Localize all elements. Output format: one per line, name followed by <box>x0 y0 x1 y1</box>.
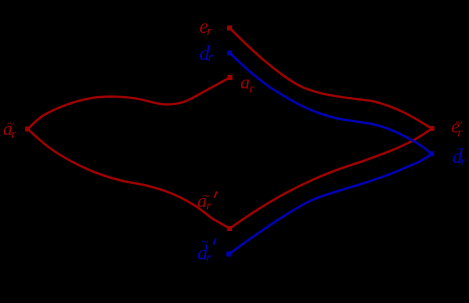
curve red ar-prime to er-tilde (lower right) <box>230 129 432 229</box>
marker ar-tilde <box>25 127 30 132</box>
marker dr-tilde <box>429 151 434 156</box>
curve blue dr-prime to dr-tilde (lower right) <box>229 154 431 254</box>
label dr-prime-tilde <box>197 233 216 264</box>
svg-text:r: r <box>206 197 212 212</box>
svg-text:r: r <box>249 81 255 96</box>
svg-text:r: r <box>206 250 212 265</box>
label ar-prime-tilde <box>197 188 216 212</box>
marker er <box>227 26 232 31</box>
svg-text:r: r <box>208 49 214 64</box>
curve red ar-tilde to ar-prime (lower left) <box>28 129 230 229</box>
label ar <box>240 73 255 96</box>
marker dr <box>227 51 232 56</box>
label er-tilde <box>451 114 463 139</box>
svg-text:r: r <box>457 124 463 139</box>
marker er-tilde <box>429 126 434 131</box>
label ar-tilde <box>3 115 17 141</box>
svg-text:r: r <box>11 126 17 141</box>
marker ar-prime <box>227 226 232 231</box>
marker ar <box>228 75 233 80</box>
marker dr-prime <box>226 252 231 257</box>
label er <box>199 16 212 38</box>
curve blue dr to dr-tilde (upper right) <box>230 53 432 154</box>
label dr <box>199 41 214 65</box>
label dr-tilde <box>453 141 467 169</box>
svg-text:r: r <box>207 23 213 38</box>
curve red ar-tilde to ar (upper left wave) <box>28 78 230 130</box>
curve red er to er-tilde (upper right) <box>230 28 432 129</box>
svg-text:r: r <box>461 154 467 169</box>
